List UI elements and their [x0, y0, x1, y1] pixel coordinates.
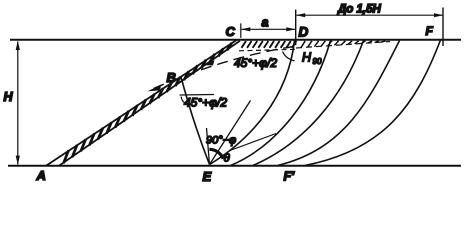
hatch strip right of D: dashed converging boundary [296, 42, 390, 49]
svg-text:F′: F′ [284, 170, 296, 184]
slope band hatch ticks [64, 43, 232, 164]
svg-text:B: B [167, 70, 176, 85]
svg-text:F: F [426, 24, 434, 38]
ticks right of D [301, 41, 386, 48]
angle arc at D [283, 52, 295, 61]
slip curve s4 [278, 41, 400, 166]
dimension H vertical line [17, 42, 19, 165]
svg-text:45°+φ/2: 45°+φ/2 [184, 96, 227, 110]
svg-text:D: D [299, 25, 309, 40]
svg-text:45°+φ/2: 45°+φ/2 [234, 56, 277, 70]
slope band lower-right edge [59, 41, 240, 166]
a dimension extension tick at C [240, 23, 242, 37]
slip curve s3 [253, 41, 364, 166]
svg-text:a: a [262, 16, 269, 30]
slip line B-E [181, 77, 210, 165]
fan ray from E [210, 101, 251, 165]
svg-text:90°−φ: 90°−φ [206, 135, 236, 147]
svg-text:H: H [4, 90, 14, 104]
slip curve s2 [231, 41, 331, 166]
F vertical extension line [442, 8, 444, 47]
end arrowhead of dashed arrow [148, 85, 162, 91]
slip curve s1 to D [210, 41, 295, 165]
svg-text:C: C [226, 24, 236, 39]
D vertical extension line [295, 10, 297, 46]
hatch strip C-D: dashed bottom boundary [239, 49, 296, 51]
small angle arc at B [181, 97, 188, 106]
slip curve s5 to F [305, 40, 441, 166]
slope band upper-left edge A-B-C [46, 40, 237, 166]
svg-text:До 1,5Н: До 1,5Н [337, 3, 382, 15]
mid arrowhead of dashed arrow [201, 60, 215, 65]
svg-text:A: A [36, 168, 46, 183]
theta arc at E (bold) [209, 149, 223, 158]
Do 1,5H dimension line [297, 14, 443, 16]
ground surface top line [10, 39, 461, 41]
dimension H bottom arrowhead [16, 156, 20, 165]
horizontal overline at B (45 label) [180, 94, 215, 97]
vertical tick at E [207, 128, 210, 165]
ground bottom line [8, 165, 461, 167]
hatch strip C-D ticks [242, 41, 297, 48]
svg-text:E: E [203, 169, 212, 184]
a dimension line [242, 28, 296, 30]
a dimension left arrowhead [241, 27, 250, 31]
dimension H top arrowhead [16, 41, 20, 50]
dashed slide arrow from D toward B (direction of thrust) [153, 47, 294, 89]
svg-text:H: H [302, 51, 312, 65]
Do 1,5H left arrowhead [296, 13, 305, 17]
Do 1,5H right arrowhead [434, 13, 443, 17]
a dimension right arrowhead [286, 27, 295, 31]
svg-text:90: 90 [313, 57, 322, 66]
leader line for 90-phi [230, 134, 276, 151]
